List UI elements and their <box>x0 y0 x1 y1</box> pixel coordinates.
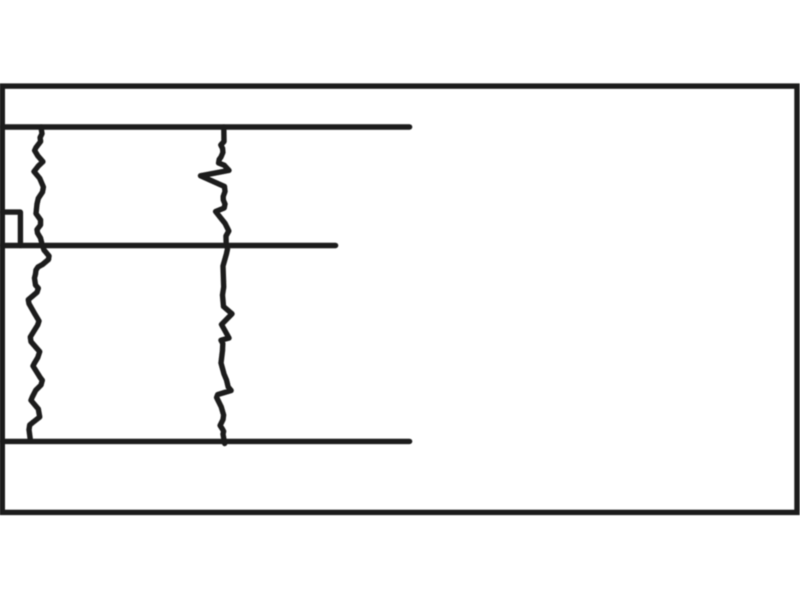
middle step line <box>2 243 336 248</box>
top surface line <box>2 124 410 129</box>
break line A <box>28 127 49 441</box>
bottom surface line <box>2 439 410 444</box>
left step notch <box>2 212 20 245</box>
break line B <box>201 127 233 444</box>
outer body rectangle <box>2 86 797 512</box>
